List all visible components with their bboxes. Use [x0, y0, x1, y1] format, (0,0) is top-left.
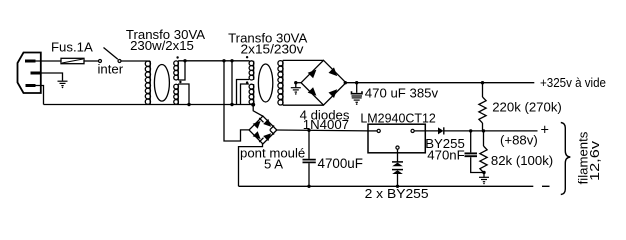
- wire pin L to fuse: [36, 60, 62, 62]
- node dot bridge plus: [344, 81, 347, 84]
- wire switch to T1 primary: [121, 60, 150, 62]
- plug pin N: [26, 84, 36, 87]
- wire top link T1 to T2: [178, 60, 249, 62]
- transformer T2 primary winding B: [249, 84, 254, 105]
- svg-text:Fus.1A: Fus.1A: [51, 39, 93, 54]
- wire T2 winding A bottom bracket: [237, 80, 250, 105]
- wire L-link T1 winding A bottom: [178, 61, 185, 80]
- wire pin N down to bottom rail: [36, 86, 44, 105]
- svg-text:82k (100k): 82k (100k): [491, 153, 553, 168]
- wire heater bridge minus out: [239, 144, 263, 187]
- wire ground stub: [295, 83, 297, 88]
- ground (82k): [479, 177, 489, 181]
- diodes 2 x BY255: [392, 162, 403, 186]
- wire HT output +325v: [345, 82, 534, 84]
- junction dot 4700uF bottom: [307, 185, 310, 188]
- junction dot 220k top: [481, 81, 484, 84]
- junction dot rail x232: [230, 103, 233, 106]
- svg-text:5 A: 5 A: [264, 156, 283, 171]
- wire bridge minus to ground: [296, 82, 301, 84]
- transformer T1 secondary winding A: [174, 61, 179, 80]
- terminal minus: [542, 185, 550, 187]
- ground (HT bridge): [291, 88, 301, 92]
- svg-text:+325v à vide: +325v à vide: [540, 75, 606, 90]
- junction dot 470nF top: [469, 129, 472, 132]
- bridge rectifier 4x1N4007: [301, 60, 346, 105]
- polarity dot T2 primary B: [246, 81, 248, 83]
- fuse Fus.1A: [61, 58, 84, 63]
- wire 82k ground stub: [483, 173, 485, 177]
- ground (mains earth): [58, 81, 68, 85]
- node dot top wire at x185: [183, 59, 186, 62]
- pin circle ground: [396, 146, 399, 149]
- pin circle input: [377, 129, 380, 132]
- brace filaments: [561, 123, 571, 195]
- svg-text:+: +: [541, 123, 549, 139]
- polarity dot T1 secondary B: [179, 81, 181, 83]
- svg-text:470 uF 385v: 470 uF 385v: [365, 86, 439, 101]
- capacitor C3 470nF: [465, 131, 485, 173]
- node dot top wire at x224: [222, 59, 225, 62]
- capacitor C1 470uF 385v: [352, 83, 363, 96]
- polarity dot T1 secondary A: [176, 56, 178, 58]
- wire from output pin: [414, 130, 438, 132]
- wire heater tap down from rail: [253, 105, 263, 117]
- junction dot diode stack bottom: [396, 185, 399, 188]
- node dot bridge ground: [294, 81, 297, 84]
- transformer T2 core: [258, 64, 272, 102]
- svg-text:LM2940CT12: LM2940CT12: [360, 111, 435, 126]
- svg-text:2x15/230v: 2x15/230v: [241, 42, 304, 57]
- plug pin E: [31, 72, 42, 75]
- transformer T2 secondary winding: [278, 60, 283, 105]
- pin circle output: [411, 129, 414, 132]
- wire pin E to ground: [41, 73, 63, 81]
- svg-text:(+88v): (+88v): [500, 133, 538, 148]
- transformer T2 primary winding A: [249, 61, 254, 80]
- junction dot rail x248.8: [251, 103, 255, 107]
- wire regulator ground down: [397, 149, 399, 162]
- wire fuse to switch: [84, 60, 99, 62]
- polarity dot T2 primary A: [246, 56, 248, 58]
- transformer T1 primary winding: [145, 61, 150, 104]
- mains plug J1: [18, 53, 41, 94]
- wire V1 down to heater bridge: [224, 61, 249, 141]
- junction dot 82k top: [482, 129, 485, 132]
- junction dot rail x189: [187, 103, 190, 106]
- wire heater bottom rail: [239, 185, 534, 187]
- transformer T1 secondary winding B: [174, 84, 179, 105]
- wire into input pin: [368, 130, 377, 132]
- resistor 82k (100k): [480, 131, 487, 173]
- svg-text:2 x BY255: 2 x BY255: [365, 186, 429, 201]
- wire T1 secondary B to rail: [177, 102, 179, 104]
- wire heater bridge plus out: [276, 129, 368, 132]
- wire T1 winding B top to rail: [178, 84, 189, 105]
- svg-text:470nF: 470nF: [427, 148, 464, 163]
- transformer T1 core: [154, 65, 169, 102]
- wire V2 top wire to rail: [231, 61, 233, 105]
- svg-text:4700uF: 4700uF: [318, 156, 363, 171]
- wire T2 secondary bottom to bridge: [283, 104, 324, 106]
- capacitor C2 4700uF: [303, 130, 316, 186]
- wire T2 winding B top bracket: [241, 84, 250, 105]
- svg-text:inter: inter: [98, 62, 124, 77]
- resistor 220k (270k): [479, 83, 486, 131]
- wire T2 secondary top to bridge: [283, 59, 324, 61]
- regulator U1 LM2940CT12: [368, 124, 425, 153]
- svg-text:230w/2x15: 230w/2x15: [130, 38, 194, 53]
- wire primary bottom rail: [44, 104, 254, 106]
- junction dot 82k bottom: [482, 171, 485, 174]
- junction dot 4700uF top: [307, 129, 310, 132]
- bridge rectifier pont moule: [249, 116, 277, 144]
- svg-text:220k (270k): 220k (270k): [492, 99, 562, 114]
- diode BY255: [438, 127, 444, 134]
- node dot top wire at x232: [230, 59, 233, 62]
- switch inter: [99, 48, 122, 63]
- wire BY255 to +88v: [444, 130, 538, 132]
- svg-text:12,6v: 12,6v: [587, 141, 602, 181]
- ground (470uF): [352, 98, 362, 102]
- plug pin L: [25, 60, 36, 63]
- junction dot 470uF: [355, 81, 358, 84]
